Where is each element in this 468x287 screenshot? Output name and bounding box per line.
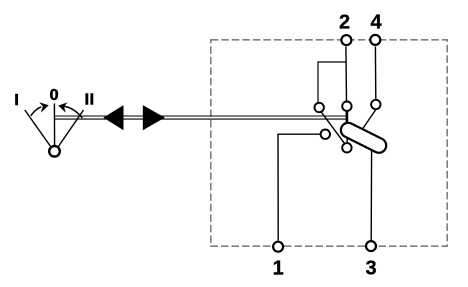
rotation arrow I to 0 (head) bbox=[39, 102, 49, 112]
enclosure dashed box bbox=[211, 40, 447, 246]
rotation arrow II to 0 (arc) bbox=[64, 106, 83, 118]
contact A bbox=[315, 103, 324, 112]
label 1 foot bbox=[274, 273, 282, 275]
contact D bbox=[321, 130, 330, 139]
left triangle marker bbox=[103, 105, 123, 130]
svg-text:I: I bbox=[85, 92, 89, 109]
pivot circle bbox=[49, 146, 60, 157]
terminal 4 bbox=[370, 35, 380, 45]
wire: lever position II line bbox=[58, 110, 83, 147]
svg-text:4: 4 bbox=[370, 12, 382, 34]
wire: actuator to terminal 3 bbox=[370, 148, 372, 240]
svg-text:2: 2 bbox=[339, 12, 350, 34]
rotation arrow II to 0 (head) bbox=[58, 102, 67, 112]
terminal 1 bbox=[273, 242, 283, 252]
wire: contact D to terminal 1 bbox=[278, 134, 320, 241]
svg-text:1: 1 bbox=[273, 258, 284, 280]
terminal 2 bbox=[341, 35, 351, 45]
right triangle marker bbox=[143, 105, 165, 130]
actuator pill bbox=[338, 120, 388, 155]
wire: lever position 0 line bbox=[53, 104, 55, 147]
wire: contact B drop to actuator bbox=[346, 111, 349, 131]
wire: terminal 4 drop bbox=[374, 47, 376, 100]
svg-text:0: 0 bbox=[50, 87, 59, 104]
wire: lever position I line bbox=[25, 110, 51, 147]
contact B bbox=[342, 102, 351, 111]
wire: terminal 2 drop bbox=[345, 47, 348, 102]
rotation arrow I to 0 (arc) bbox=[31, 107, 41, 116]
svg-text:I: I bbox=[14, 92, 18, 109]
wire: actuating double line lower bbox=[54, 118, 347, 120]
wire: contact 4 diagonal to actuator bbox=[362, 110, 376, 131]
wire: branch to contact A bbox=[318, 62, 346, 103]
wire: diagonal contact A to contact E bbox=[322, 112, 345, 143]
wire: actuator to contact E connector bbox=[346, 138, 348, 146]
contact E bbox=[342, 143, 351, 152]
wire: actuating double line upper bbox=[54, 115, 347, 117]
terminal 3 bbox=[366, 241, 376, 251]
contact for terminal 4 bbox=[371, 100, 380, 109]
svg-text:I: I bbox=[90, 92, 94, 109]
svg-text:3: 3 bbox=[365, 258, 376, 280]
